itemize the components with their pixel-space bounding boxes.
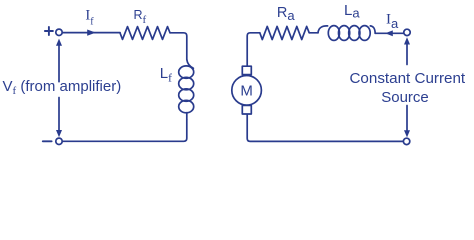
svg-text:La: La	[344, 2, 360, 21]
svg-text:Constant Current: Constant Current	[349, 70, 465, 87]
svg-text:Source: Source	[381, 89, 429, 106]
svg-text:M: M	[240, 82, 253, 99]
svg-text:Vf (from amplifier): Vf (from amplifier)	[3, 78, 122, 97]
svg-text:Ra: Ra	[277, 5, 295, 23]
